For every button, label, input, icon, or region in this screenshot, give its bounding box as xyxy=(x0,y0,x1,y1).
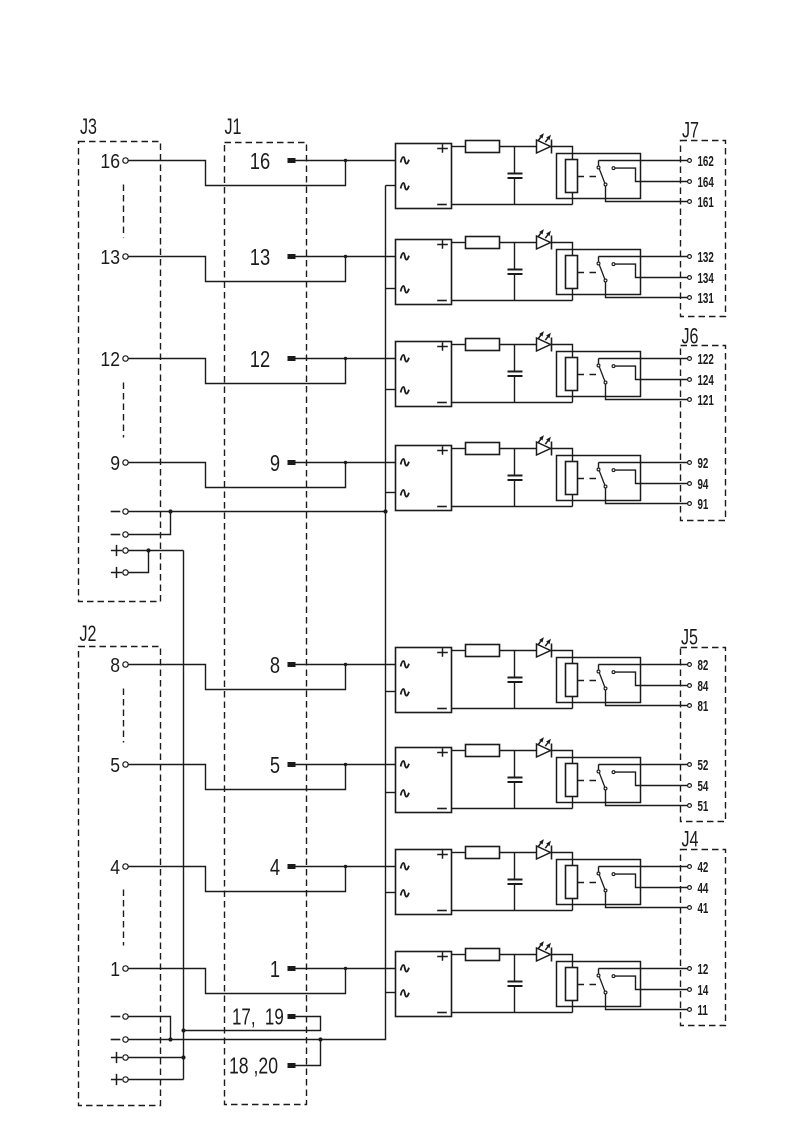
J7 pin 161 xyxy=(688,194,714,210)
J7 pin 132 xyxy=(688,249,714,265)
relay K8 contact NO terminal xyxy=(612,975,615,978)
relay K3 actuation dashed link xyxy=(578,374,598,376)
relay K6 contact common arm xyxy=(597,765,607,790)
J6 pin 124 xyxy=(688,372,714,388)
relay K2 body xyxy=(557,250,641,295)
capacitor C4 xyxy=(508,449,523,507)
J3 pin minus 2 xyxy=(111,532,129,537)
LED D5 xyxy=(537,637,552,657)
svg-text:164: 164 xyxy=(698,174,714,190)
relay K7 contact common arm xyxy=(597,867,607,892)
svg-text:18 ,20: 18 ,20 xyxy=(229,1053,278,1079)
capacitor C7 xyxy=(508,853,523,911)
J1 pin 4 xyxy=(270,855,296,881)
relay K3 contact common arm xyxy=(597,359,607,384)
wire AC common bus xyxy=(129,186,386,1040)
svg-text:44: 44 xyxy=(698,880,709,896)
svg-text:82: 82 xyxy=(698,657,709,673)
relay K7 body xyxy=(557,860,641,905)
J2 pin plus 2 xyxy=(111,1074,128,1085)
wire contact common to J4 pin 11 xyxy=(606,994,688,1009)
svg-text:51: 51 xyxy=(698,798,709,814)
resistor R1 xyxy=(466,141,500,153)
svg-text:J7: J7 xyxy=(682,119,699,143)
wire LED D8 to relay coil K8 xyxy=(552,955,573,968)
J4 pin 42 xyxy=(688,859,709,875)
svg-text:J1: J1 xyxy=(225,116,242,140)
J1 pin 12 xyxy=(250,347,296,373)
J7 pin 164 xyxy=(688,174,714,190)
J7 pin 162 xyxy=(688,153,714,169)
capacitor C2 xyxy=(508,243,523,301)
wire J1-16 to rectifier U1 input xyxy=(296,160,396,162)
wire contact NO to J6 pin 124 xyxy=(615,366,687,379)
wire coil K6 to negative rail xyxy=(572,797,574,809)
svg-text:81: 81 xyxy=(698,698,709,714)
wire contact NC to J7 pin 162 xyxy=(599,160,688,162)
svg-text:13: 13 xyxy=(250,245,270,271)
wire J2 plus 2 tie xyxy=(129,1079,184,1081)
svg-text:J6: J6 xyxy=(682,325,699,349)
wire negative rail U5 xyxy=(452,708,573,710)
svg-text:91: 91 xyxy=(698,496,709,512)
wire rectifier U1 + output to resistor R1 xyxy=(452,146,466,148)
svg-text:54: 54 xyxy=(698,778,709,794)
svg-text:52: 52 xyxy=(698,757,709,773)
svg-text:J2: J2 xyxy=(80,623,97,647)
wire LED D2 to relay coil K2 xyxy=(552,243,573,256)
svg-text:121: 121 xyxy=(698,392,714,408)
wire J2-1 to J1-1 (stepped) xyxy=(129,967,348,994)
connector J7 outline xyxy=(681,119,726,316)
wire negative rail U6 xyxy=(452,808,573,810)
wire J1-12 to rectifier U3 input xyxy=(296,358,396,360)
connector J2 outline xyxy=(79,623,161,1106)
wire J1-9 to rectifier U4 input xyxy=(296,462,396,464)
svg-text:8: 8 xyxy=(270,653,280,679)
svg-text:12: 12 xyxy=(698,961,709,977)
svg-text:124: 124 xyxy=(698,372,714,388)
resistor R6 xyxy=(466,745,500,757)
wire contact NC to J4 pin 12 xyxy=(599,968,688,970)
wire rectifier U7 input 2 to AC common bus xyxy=(386,892,396,894)
svg-text:42: 42 xyxy=(698,859,709,875)
wire contact NC to J4 pin 42 xyxy=(599,866,688,868)
bridge rectifier U4 xyxy=(396,446,452,511)
wire contact NO to J6 pin 94 xyxy=(615,470,687,483)
wire contact common to J7 pin 161 xyxy=(606,186,688,201)
capacitor C5 xyxy=(508,651,523,709)
wire rectifier U2 input 2 to AC common bus xyxy=(386,288,396,290)
J4 pin 11 xyxy=(688,1002,708,1018)
J2 pin 5 xyxy=(110,755,128,778)
resistor R7 xyxy=(466,847,500,859)
wire contact common to J5 pin 81 xyxy=(606,690,688,705)
wire negative rail U2 xyxy=(452,300,573,302)
J4 pin 41 xyxy=(688,900,709,916)
svg-text:162: 162 xyxy=(698,153,714,169)
relay coil K5 xyxy=(566,664,578,697)
wire resistor R3 to LED D3 xyxy=(500,344,537,346)
wire contact NO to J7 pin 164 xyxy=(615,168,687,181)
J3 pin plus 1 xyxy=(111,545,128,556)
svg-text:13: 13 xyxy=(100,247,120,270)
svg-text:J4: J4 xyxy=(682,828,699,852)
relay coil K7 xyxy=(566,866,578,899)
J2 pin 8 xyxy=(110,655,128,678)
svg-text:92: 92 xyxy=(698,455,709,471)
relay K2 contact NO terminal xyxy=(612,263,615,266)
resistor R8 xyxy=(466,949,500,961)
wire resistor R6 to LED D6 xyxy=(500,750,537,752)
wire LED D7 to relay coil K7 xyxy=(552,853,573,866)
svg-text:8: 8 xyxy=(110,655,120,678)
relay K5 contact NO terminal xyxy=(612,671,615,674)
wire contact NC to J7 pin 132 xyxy=(599,256,688,258)
relay coil K8 xyxy=(566,968,578,1001)
wire J3-13 to J1-13 (stepped) xyxy=(129,255,348,282)
wire rectifier U3 input 2 to AC common bus xyxy=(386,389,396,391)
relay K4 actuation dashed link xyxy=(578,478,598,480)
svg-text:14: 14 xyxy=(698,982,709,998)
J2 pin minus 1 xyxy=(111,1014,129,1019)
J1 pin 16 xyxy=(250,149,296,175)
J4 pin 44 xyxy=(688,880,709,896)
relay K5 body xyxy=(557,658,641,703)
svg-text:16: 16 xyxy=(250,149,270,175)
connector J3 outline xyxy=(79,116,161,602)
relay K8 contact common arm xyxy=(597,969,607,994)
svg-text:1: 1 xyxy=(270,957,280,983)
wire J1-13 to rectifier U2 input xyxy=(296,256,396,258)
wire coil K7 to negative rail xyxy=(572,899,574,911)
wire negative rail U3 xyxy=(452,402,573,404)
J4 pin 12 xyxy=(688,961,709,977)
wire J3 minus 1 to AC common bus xyxy=(129,509,388,513)
bridge rectifier U3 xyxy=(396,342,452,407)
svg-text:41: 41 xyxy=(698,900,709,916)
capacitor C3 xyxy=(508,345,523,403)
wire contact NC to J5 pin 82 xyxy=(599,664,688,666)
relay K4 body xyxy=(557,456,641,501)
wire J1-5 to rectifier U6 input xyxy=(296,764,396,766)
relay K5 contact common arm xyxy=(597,665,607,690)
J6 pin 122 xyxy=(688,351,714,367)
wire J3 minus 2 tie xyxy=(129,512,171,535)
relay K4 contact NO terminal xyxy=(612,469,615,472)
svg-text:16: 16 xyxy=(100,151,120,174)
J1 pin 9 xyxy=(270,451,296,477)
resistor R2 xyxy=(466,237,500,249)
wire contact NO to J7 pin 134 xyxy=(615,264,687,277)
svg-text:161: 161 xyxy=(698,194,714,210)
wire coil K2 to negative rail xyxy=(572,289,574,301)
relay coil K6 xyxy=(566,764,578,797)
relay K7 actuation dashed link xyxy=(578,882,598,884)
svg-text:9: 9 xyxy=(110,453,120,476)
wire J2-8 to J1-8 (stepped) xyxy=(129,663,348,690)
J1 pin 8 xyxy=(270,653,296,679)
bridge rectifier U6 xyxy=(396,748,452,813)
wire resistor R7 to LED D7 xyxy=(500,852,537,854)
wire negative rail U8 xyxy=(452,1012,573,1014)
wire coil K3 to negative rail xyxy=(572,391,574,403)
J6 pin 91 xyxy=(688,496,709,512)
wire contact common to J7 pin 131 xyxy=(606,282,688,297)
relay K4 contact common arm xyxy=(597,463,607,488)
svg-text:131: 131 xyxy=(698,290,714,306)
wire LED D5 to relay coil K5 xyxy=(552,651,573,664)
J3 pin 16 xyxy=(100,151,128,174)
relay coil K2 xyxy=(566,256,578,289)
relay coil K4 xyxy=(566,462,578,495)
wire rectifier U3 + output to resistor R3 xyxy=(452,344,466,346)
wire contact NO to J5 pin 54 xyxy=(615,772,687,785)
J6 pin 92 xyxy=(688,455,709,471)
relay K6 contact NO terminal xyxy=(612,771,615,774)
J1 pin 1 xyxy=(270,957,296,983)
wire J2 minus 1 tie xyxy=(129,1017,173,1042)
bridge rectifier U7 xyxy=(396,850,452,915)
LED D1 xyxy=(537,133,552,153)
wire J1 17,19 to positive net xyxy=(184,1017,321,1031)
LED D8 xyxy=(537,941,552,961)
relay K6 actuation dashed link xyxy=(578,780,598,782)
svg-text:1: 1 xyxy=(110,959,120,982)
wire contact common to J6 pin 121 xyxy=(606,384,688,399)
relay K1 actuation dashed link xyxy=(578,176,598,178)
relay K3 contact NO terminal xyxy=(612,365,615,368)
relay K1 contact common arm xyxy=(597,161,607,186)
svg-text:J5: J5 xyxy=(681,626,698,650)
J3 pin 13 xyxy=(100,247,128,270)
relay K7 contact NO terminal xyxy=(612,873,615,876)
J5 pin 51 xyxy=(688,798,709,814)
wire rectifier U4 + output to resistor R4 xyxy=(452,448,466,450)
J3 inner separator dashes xyxy=(123,185,125,438)
LED D6 xyxy=(537,737,552,757)
svg-text:4: 4 xyxy=(110,857,120,880)
wire negative rail U7 xyxy=(452,910,573,912)
wire rectifier U5 input 2 to AC common bus xyxy=(386,691,396,693)
resistor R5 xyxy=(466,645,500,657)
bridge rectifier U1 xyxy=(396,144,452,209)
J4 pin 14 xyxy=(688,982,709,998)
wire rectifier U6 + output to resistor R6 xyxy=(452,750,466,752)
J7 pin 131 xyxy=(688,290,714,306)
wire contact common to J5 pin 51 xyxy=(606,790,688,805)
capacitor C1 xyxy=(508,147,523,205)
wire negative rail U1 xyxy=(452,204,573,206)
svg-text:134: 134 xyxy=(698,270,714,286)
LED D2 xyxy=(537,229,552,249)
J1 pin 13 xyxy=(250,245,296,271)
wire coil K4 to negative rail xyxy=(572,495,574,507)
J5 pin 54 xyxy=(688,778,709,794)
wire J2-4 to J1-4 (stepped) xyxy=(129,865,348,892)
wire LED D3 to relay coil K3 xyxy=(552,345,573,358)
J2 pin minus 2 xyxy=(111,1037,129,1042)
wire resistor R8 to LED D8 xyxy=(500,954,537,956)
J3 pin 12 xyxy=(100,349,128,372)
svg-text:11: 11 xyxy=(698,1002,708,1018)
relay K3 body xyxy=(557,352,641,397)
resistor R3 xyxy=(466,339,500,351)
svg-text:5: 5 xyxy=(110,755,120,778)
wire J3 plus 2 tie xyxy=(129,551,149,573)
wire J2-5 to J1-5 (stepped) xyxy=(129,763,348,790)
wire LED D1 to relay coil K1 xyxy=(552,147,573,160)
svg-text:132: 132 xyxy=(698,249,714,265)
wire J1-4 to rectifier U7 input xyxy=(296,866,396,868)
J2 inner separator dashes xyxy=(123,689,125,946)
relay K8 body xyxy=(557,962,641,1007)
wire coil K5 to negative rail xyxy=(572,697,574,709)
wire LED D6 to relay coil K6 xyxy=(552,751,573,764)
relay K2 contact common arm xyxy=(597,257,607,282)
J6 pin 94 xyxy=(688,476,709,492)
J7 pin 134 xyxy=(688,270,714,286)
connector J4 outline xyxy=(681,828,726,1025)
wire contact common to J4 pin 41 xyxy=(606,892,688,907)
J1 pin 18, 20 xyxy=(229,1053,296,1079)
wire resistor R1 to LED D1 xyxy=(500,146,537,148)
bridge rectifier U2 xyxy=(396,240,452,305)
LED D3 xyxy=(537,331,552,351)
wire resistor R2 to LED D2 xyxy=(500,242,537,244)
J3 pin 9 xyxy=(110,453,128,476)
svg-text:9: 9 xyxy=(270,451,280,477)
svg-text:5: 5 xyxy=(270,753,280,779)
J2 pin plus 1 xyxy=(111,1052,128,1063)
relay K5 actuation dashed link xyxy=(578,680,598,682)
wire J1 18,20 to AC common bus xyxy=(296,1037,323,1065)
wire negative rail U4 xyxy=(452,506,573,508)
J6 pin 121 xyxy=(688,392,714,408)
relay K2 actuation dashed link xyxy=(578,272,598,274)
wire contact NO to J5 pin 84 xyxy=(615,672,687,685)
relay coil K1 xyxy=(566,160,578,193)
wire rectifier U6 input 2 to AC common bus xyxy=(386,792,396,794)
relay K6 body xyxy=(557,758,641,803)
capacitor C8 xyxy=(508,955,523,1013)
wire resistor R5 to LED D5 xyxy=(500,650,537,652)
wire rectifier U8 + output to resistor R8 xyxy=(452,954,466,956)
wire J3 plus 1 to positive net xyxy=(129,548,184,552)
wire rectifier U8 input 2 to AC common bus xyxy=(386,992,396,994)
wire J2 plus 1 to positive net xyxy=(129,1055,186,1059)
wire contact NC to J6 pin 122 xyxy=(599,358,688,360)
wire contact common to J6 pin 91 xyxy=(606,488,688,503)
J5 pin 84 xyxy=(688,678,709,694)
J2 pin 1 xyxy=(110,959,128,982)
wire positive net vertical xyxy=(181,551,185,1080)
wire coil K1 to negative rail xyxy=(572,193,574,205)
wire contact NC to J6 pin 92 xyxy=(599,462,688,464)
relay K8 actuation dashed link xyxy=(578,984,598,986)
J5 pin 52 xyxy=(688,757,709,773)
wire J3-16 to J1-16 (stepped) xyxy=(129,159,348,186)
wire rectifier U4 input 2 to AC common bus xyxy=(386,492,396,494)
svg-text:17, 19: 17, 19 xyxy=(232,1004,284,1030)
wire J1-8 to rectifier U5 input xyxy=(296,664,396,666)
wire rectifier U7 + output to resistor R7 xyxy=(452,852,466,854)
J2 pin 4 xyxy=(110,857,128,880)
svg-text:94: 94 xyxy=(698,476,709,492)
relay K1 contact NO terminal xyxy=(612,167,615,170)
J3 pin minus 1 xyxy=(111,509,129,514)
connector J5 outline xyxy=(681,626,726,821)
resistor R4 xyxy=(466,443,500,455)
capacitor C6 xyxy=(508,751,523,809)
J5 pin 82 xyxy=(688,657,709,673)
svg-text:12: 12 xyxy=(250,347,270,373)
wire J3-12 to J1-12 (stepped) xyxy=(129,357,348,384)
wire coil K8 to negative rail xyxy=(572,1001,574,1013)
wire LED D4 to relay coil K4 xyxy=(552,449,573,462)
relay K1 body xyxy=(557,154,641,199)
wire rectifier U2 + output to resistor R2 xyxy=(452,242,466,244)
J3 pin plus 2 xyxy=(111,567,128,578)
bridge rectifier U8 xyxy=(396,952,452,1017)
wire contact NC to J5 pin 52 xyxy=(599,764,688,766)
svg-text:4: 4 xyxy=(270,855,280,881)
wire J3-9 to J1-9 (stepped) xyxy=(129,461,348,488)
svg-text:122: 122 xyxy=(698,351,714,367)
wire contact NO to J4 pin 44 xyxy=(615,874,687,887)
connector J6 outline xyxy=(681,325,726,520)
J1 pin 17, 19 xyxy=(232,1004,296,1030)
svg-text:J3: J3 xyxy=(80,116,97,140)
wire rectifier U1 input 2 to AC common bus xyxy=(386,185,396,187)
svg-text:84: 84 xyxy=(698,678,709,694)
LED D7 xyxy=(537,839,552,859)
J5 pin 81 xyxy=(688,698,709,714)
LED D4 xyxy=(537,435,552,455)
J1 pin 5 xyxy=(270,753,296,779)
bridge rectifier U5 xyxy=(396,648,452,713)
wire rectifier U5 + output to resistor R5 xyxy=(452,650,466,652)
svg-text:12: 12 xyxy=(100,349,120,372)
relay coil K3 xyxy=(566,358,578,391)
wire contact NO to J4 pin 14 xyxy=(615,976,687,989)
connector J1 outline xyxy=(225,116,307,1105)
wire J1-1 to rectifier U8 input xyxy=(296,968,396,970)
wire resistor R4 to LED D4 xyxy=(500,448,537,450)
